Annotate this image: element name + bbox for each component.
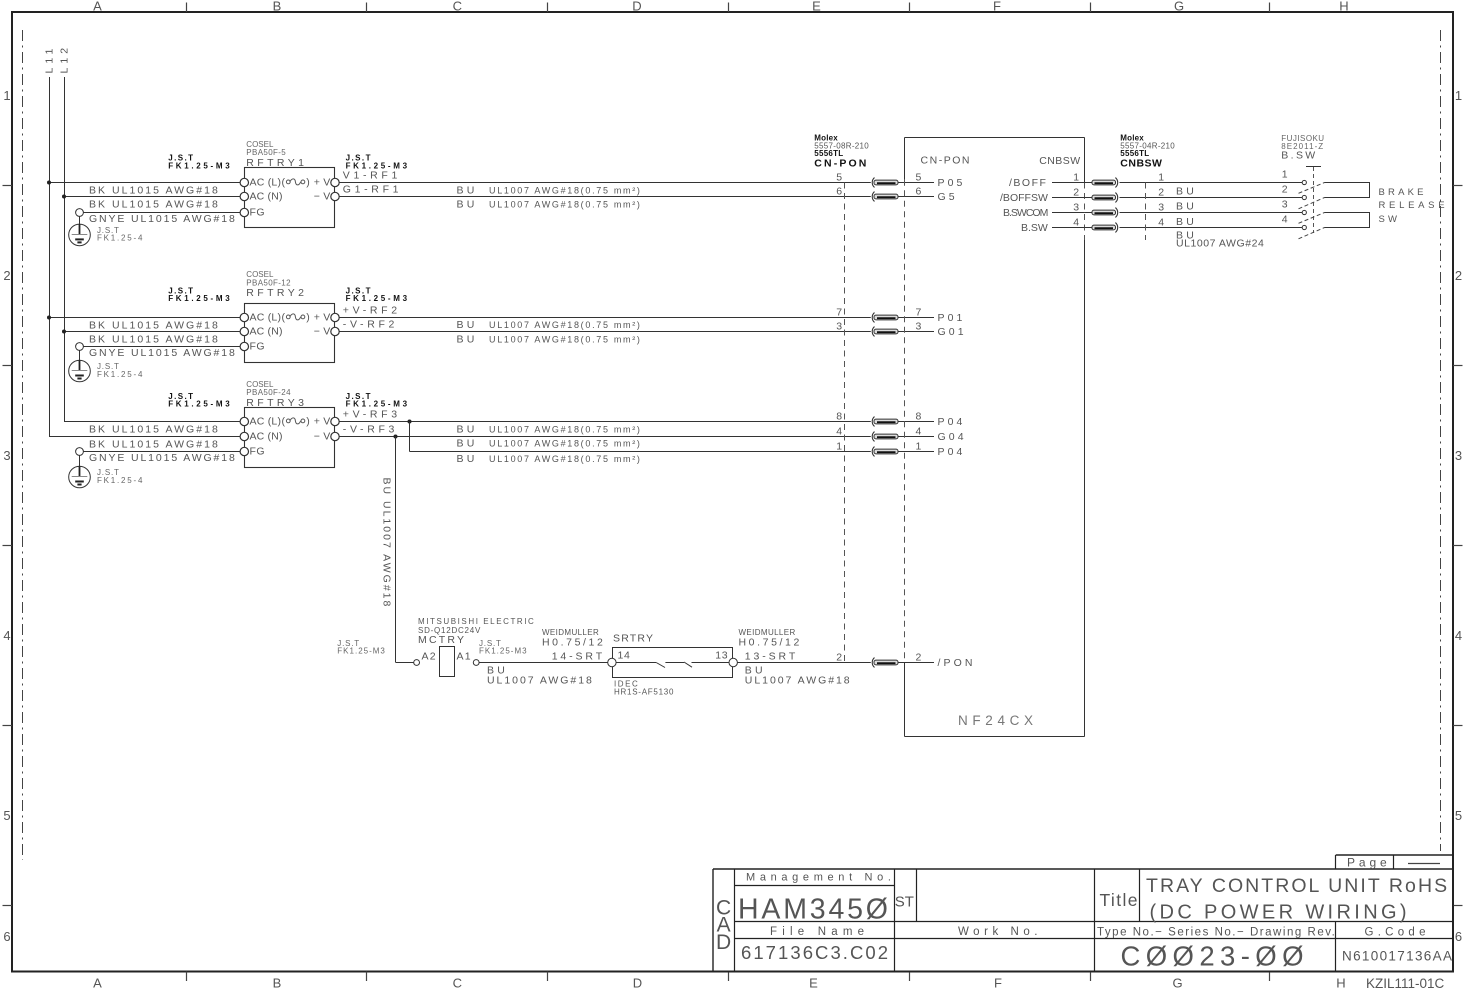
splice crimp CN-PON pin 1 (872, 447, 898, 457)
svg-text:NF24CX: NF24CX (958, 713, 1038, 728)
switch contact terminal pin 2 (1302, 195, 1306, 199)
svg-text:4: 4 (3, 628, 10, 643)
junction +V-RF3 branch (408, 420, 412, 424)
terminal A2 lug (414, 660, 420, 666)
svg-text:1: 1 (3, 88, 10, 103)
svg-text:H: H (1336, 976, 1345, 991)
svg-text:FK1.25-M3: FK1.25-M3 (346, 294, 410, 303)
pin AC(L) RFTRY2 (240, 313, 248, 321)
svg-text:7: 7 (916, 307, 922, 319)
svg-text:1: 1 (916, 441, 922, 453)
junction -V-RF3 branch (394, 435, 398, 439)
wire stub inside NF24CX pin 6 (905, 196, 935, 198)
connector CN-PON dashed boundary (844, 183, 846, 663)
svg-text:B.SW: B.SW (1281, 150, 1317, 162)
switch pole 2 blade upper (dashed) (1299, 213, 1325, 224)
svg-text:+V: +V (314, 312, 334, 324)
svg-text:5: 5 (916, 172, 922, 184)
svg-text:1: 1 (1455, 88, 1462, 103)
svg-text:+V: +V (314, 416, 334, 428)
wire to CN-PON pin 2 (737, 662, 870, 664)
svg-text:3: 3 (1282, 198, 1288, 210)
svg-text:G: G (1174, 0, 1184, 14)
terminal FG lug RFTRY3 (76, 448, 84, 456)
svg-text:HAM345Ø: HAM345Ø (738, 894, 891, 926)
wire stub inside NF24CX pin 1 (905, 451, 935, 453)
junction L11/RFTRY1 (47, 181, 51, 185)
svg-text:G: G (1172, 976, 1182, 991)
pin +V RFTRY3 (331, 417, 339, 425)
splice crimp CN-PON pin 3 (872, 327, 898, 337)
splice crimp CNBSW pin 4 (1092, 223, 1118, 233)
svg-text:E: E (809, 976, 818, 991)
svg-text:AC (L): AC (L) (250, 311, 282, 323)
svg-text:G1-RF1: G1-RF1 (343, 184, 402, 196)
svg-text:/PON: /PON (938, 657, 976, 669)
wire FG RFTRY3 (83, 451, 240, 453)
splice crimp CNBSW pin 3 (1092, 208, 1118, 218)
svg-text:13-SRT: 13-SRT (745, 650, 798, 662)
svg-text:6: 6 (1455, 929, 1462, 944)
svg-text:MCTRY: MCTRY (418, 634, 466, 646)
svg-text:14: 14 (618, 650, 631, 662)
svg-text:4: 4 (1455, 628, 1462, 643)
svg-text:1: 1 (1158, 172, 1164, 184)
junction L12/RFTRY2 (62, 330, 66, 334)
svg-text:4: 4 (1282, 213, 1288, 225)
terminal A1 lug (473, 660, 479, 666)
wire -V-RF3 to MCTRY A2 (396, 662, 414, 664)
svg-text:BU: BU (457, 423, 478, 435)
svg-text:BK UL1015 AWG#18: BK UL1015 AWG#18 (89, 424, 220, 436)
svg-text:CN-PON: CN-PON (921, 155, 972, 167)
AC waveform symbol RFTRY2 (282, 311, 310, 323)
wire stub inside NF24CX pin 3 (905, 331, 935, 333)
svg-text:2: 2 (3, 268, 10, 283)
svg-text:B.SWCOM: B.SWCOM (1003, 207, 1048, 219)
wire -V-RF3 down to MCTRY (395, 437, 397, 663)
svg-text:UL1007 AWG#18(0.75 mm²): UL1007 AWG#18(0.75 mm²) (489, 439, 642, 449)
svg-text:BK UL1015 AWG#18: BK UL1015 AWG#18 (89, 199, 220, 211)
svg-text:BU: BU (457, 319, 478, 331)
splice crimp CN-PON pin 5 (872, 178, 898, 188)
switch B.SW linkage dashed (1313, 167, 1315, 233)
svg-text:G5: G5 (938, 191, 958, 203)
wire MCTRY A1 to SRTRY 14 (479, 662, 608, 664)
svg-text:4: 4 (916, 426, 922, 438)
svg-text:BU: BU (457, 184, 478, 196)
svg-text:/BOFFSW: /BOFFSW (1000, 192, 1048, 204)
wire stub /BOFFSW to CNBSW pin 2 (1052, 197, 1085, 199)
svg-text:FK1.25-M3: FK1.25-M3 (168, 162, 232, 171)
splice crimp CN-PON pin 8 (872, 417, 898, 427)
svg-text:G04: G04 (938, 431, 967, 443)
wire to CN-PON pin 1 (410, 451, 871, 453)
wire CNBSW pin 4 to B.SW switch (1085, 227, 1092, 229)
svg-text:BK UL1015 AWG#18: BK UL1015 AWG#18 (89, 334, 220, 346)
terminal FG lug RFTRY2 (76, 343, 84, 351)
svg-text:G01: G01 (938, 326, 967, 338)
svg-text:4: 4 (1158, 217, 1164, 229)
svg-text:UL1007 AWG#18(0.75 mm²): UL1007 AWG#18(0.75 mm²) (489, 200, 642, 210)
svg-text:V1-RF1: V1-RF1 (343, 170, 401, 182)
splice crimp CNBSW pin 2 (1092, 193, 1118, 203)
pin -V RFTRY2 (331, 327, 339, 335)
svg-text:B: B (273, 0, 282, 14)
svg-text:UL1007 AWG#18(0.75 mm²): UL1007 AWG#18(0.75 mm²) (489, 320, 642, 330)
wire L11 vertical (50, 77, 241, 437)
wire CNBSW pin 3 to B.SW switch (1085, 212, 1092, 214)
svg-text:BU UL1007 AWG#18: BU UL1007 AWG#18 (381, 478, 393, 609)
splice crimp CNBSW pin 1 (1092, 178, 1118, 188)
terminal SRTRY 14 lug (608, 658, 616, 666)
switch B.SW actuator bar (1306, 166, 1321, 168)
svg-text:FG: FG (250, 446, 265, 458)
svg-text:AC (L): AC (L) (250, 176, 282, 188)
svg-text:BU: BU (1176, 216, 1197, 228)
pin -V RFTRY3 (331, 432, 339, 440)
svg-text:AC (N): AC (N) (250, 191, 283, 203)
svg-text:RFTRY2: RFTRY2 (246, 287, 307, 299)
svg-text:H0.75/12: H0.75/12 (739, 637, 802, 649)
svg-text:A1: A1 (457, 650, 472, 662)
svg-text:3: 3 (3, 448, 10, 463)
wire L12 vertical (65, 77, 241, 422)
svg-text:CNBSW: CNBSW (1120, 157, 1162, 169)
wire +V-RF3 branch down (409, 422, 411, 452)
svg-text:+V: +V (314, 177, 334, 189)
svg-text:GNYE UL1015 AWG#18: GNYE UL1015 AWG#18 (89, 347, 237, 359)
wire FG RFTRY2 (83, 346, 240, 348)
svg-text:KZIL111-01C: KZIL111-01C (1366, 976, 1445, 991)
svg-text:F: F (993, 0, 1001, 14)
switch pole 2 common bracket (1325, 213, 1370, 228)
unit NF24CX box outline (905, 138, 1085, 737)
junction L11/RFTRY2 (47, 316, 51, 320)
pin AC(L) RFTRY1 (240, 178, 248, 186)
wire stub inside NF24CX pin 5 (905, 182, 935, 184)
ground symbol RFTRY1 (69, 216, 91, 245)
svg-text:2: 2 (1158, 187, 1164, 199)
terminal FG lug RFTRY1 (76, 209, 84, 217)
switch pole 1 common bracket (1325, 183, 1370, 198)
svg-text:BU: BU (1176, 201, 1197, 213)
wire to CN-PON pin 5 (339, 182, 871, 184)
wire stub inside NF24CX pin 2 (905, 662, 935, 664)
splice crimp CN-PON pin 2 (872, 658, 898, 668)
svg-text:RELEASE: RELEASE (1379, 200, 1449, 211)
svg-text:Title: Title (1100, 890, 1139, 910)
svg-text:FK1.25-M3: FK1.25-M3 (168, 294, 232, 303)
svg-text:P04: P04 (938, 416, 966, 428)
svg-text:BU: BU (1176, 186, 1197, 198)
svg-text:UL1007 AWG#18: UL1007 AWG#18 (745, 674, 852, 686)
power supply RFTRY2 box (245, 304, 335, 363)
label BRAKE RELEASE SW (1379, 187, 1449, 225)
svg-text:BU: BU (457, 438, 478, 450)
wire to CN-PON pin 6 (339, 196, 871, 198)
svg-text:617136C3.C02: 617136C3.C02 (741, 942, 890, 963)
pin FG RFTRY2 (240, 342, 248, 350)
pin -V RFTRY1 (331, 192, 339, 200)
svg-text:+V-RF2: +V-RF2 (343, 305, 401, 317)
wire FG RFTRY1 (83, 212, 240, 214)
svg-text:N610017136AA: N610017136AA (1342, 948, 1453, 963)
connector CN-PON Molex part labels (814, 133, 869, 169)
pin AC(N) RFTRY1 (240, 192, 248, 200)
terminal SRTRY 13 lug (729, 658, 737, 666)
switch pole 1 blade lower (dashed) (1299, 198, 1325, 209)
svg-text:BK UL1015 AWG#18: BK UL1015 AWG#18 (89, 185, 220, 197)
splice crimp CN-PON pin 6 (872, 192, 898, 202)
svg-text:-V-RF3: -V-RF3 (343, 424, 398, 436)
svg-text:2: 2 (1282, 183, 1288, 195)
svg-text:C: C (453, 0, 462, 14)
svg-text:3: 3 (1073, 201, 1079, 213)
wire stub inside NF24CX pin 7 (905, 317, 935, 319)
wire CNBSW pin 1 to B.SW switch (1085, 182, 1092, 184)
switch contact terminal pin 4 (1302, 225, 1306, 229)
svg-text:1: 1 (836, 441, 842, 453)
svg-text:14-SRT: 14-SRT (552, 650, 605, 662)
svg-text:H: H (1339, 0, 1348, 14)
svg-text:Management No.: Management No. (746, 872, 896, 884)
svg-text:B.SW: B.SW (1021, 222, 1048, 234)
svg-text:FK1.25-4: FK1.25-4 (97, 476, 144, 485)
power supply RFTRY3 box (245, 408, 335, 468)
svg-text:AC (N): AC (N) (250, 326, 283, 338)
svg-text:3: 3 (1158, 202, 1164, 214)
svg-text:(: ( (282, 176, 286, 188)
wire to CN-PON pin 7 (339, 317, 871, 319)
svg-text:A2: A2 (422, 650, 437, 662)
switch pole 2 blade lower (dashed) (1299, 228, 1325, 239)
svg-text:1: 1 (1282, 168, 1288, 180)
svg-text:FK1.25-4: FK1.25-4 (97, 234, 144, 243)
svg-text:P01: P01 (938, 312, 966, 324)
svg-text:P05: P05 (938, 177, 966, 189)
svg-text:13: 13 (715, 650, 728, 662)
wire CNBSW pin 2 to B.SW switch (1085, 197, 1092, 199)
timer contact SRTRY box (613, 648, 733, 678)
svg-text:): ) (306, 311, 310, 323)
relay MCTRY coil (440, 647, 455, 677)
switch pole 1 blade upper (dashed) (1299, 183, 1325, 194)
wire stub /BOFF to CNBSW pin 1 (1052, 182, 1085, 184)
wire to CN-PON pin 4 (339, 436, 871, 438)
svg-text:(: ( (282, 311, 286, 323)
svg-text:H0.75/12: H0.75/12 (542, 637, 605, 649)
wire L12 to RFTRY2 AC(N) (64, 331, 240, 333)
switch contact terminal pin 3 (1302, 210, 1306, 214)
svg-text:UL1007 AWG#18(0.75 mm²): UL1007 AWG#18(0.75 mm²) (489, 335, 642, 345)
svg-text:F: F (994, 976, 1002, 991)
svg-text:BU: BU (457, 453, 478, 465)
ground symbol RFTRY2 (69, 350, 91, 381)
wire to CN-PON pin 8 (339, 421, 871, 423)
svg-text:HR1S-AF5130: HR1S-AF5130 (614, 688, 674, 697)
svg-text:1: 1 (1073, 171, 1079, 183)
svg-text:FG: FG (250, 207, 265, 219)
svg-text:D: D (633, 976, 642, 991)
svg-text:GNYE UL1015 AWG#18: GNYE UL1015 AWG#18 (89, 452, 237, 464)
pin AC(N) RFTRY2 (240, 327, 248, 335)
label WEIDMULLER H0.75/12 13-SRT (739, 628, 802, 662)
svg-text:B: B (273, 976, 282, 991)
svg-text:2: 2 (836, 652, 842, 664)
pin FG RFTRY3 (240, 447, 248, 455)
wire to CN-PON pin 3 (339, 331, 871, 333)
svg-text:UL1007 AWG#18(0.75 mm²): UL1007 AWG#18(0.75 mm²) (489, 424, 642, 434)
svg-text:E: E (812, 0, 821, 14)
switch contact terminal pin 1 (1302, 180, 1306, 184)
svg-text:BK UL1015 AWG#18: BK UL1015 AWG#18 (89, 439, 220, 451)
svg-text:D: D (716, 931, 731, 954)
svg-text:(: ( (282, 415, 286, 427)
svg-text:5: 5 (3, 808, 10, 823)
power supply RFTRY1 box (245, 168, 335, 228)
svg-text:ST: ST (895, 894, 914, 911)
svg-text:2: 2 (916, 652, 922, 664)
svg-text:−V: −V (314, 431, 334, 443)
pin +V RFTRY2 (331, 313, 339, 321)
pin +V RFTRY1 (331, 178, 339, 186)
svg-text:(DC POWER WIRING): (DC POWER WIRING) (1150, 901, 1410, 923)
switch B.SW part labels FUJISOKU 8E2011-Z (1281, 134, 1324, 162)
AC waveform symbol RFTRY1 (282, 176, 310, 188)
svg-text:−V: −V (314, 326, 334, 338)
svg-text:−V: −V (314, 191, 334, 203)
svg-text:4: 4 (836, 426, 842, 438)
svg-text:): ) (306, 176, 310, 188)
AC waveform symbol RFTRY3 (282, 415, 310, 427)
svg-text:4: 4 (1073, 216, 1079, 228)
label WEIDMULLER H0.75/12 14-SRT (542, 628, 605, 662)
svg-text:UL1007 AWG#18: UL1007 AWG#18 (487, 674, 594, 686)
svg-text:/BOFF: /BOFF (1009, 177, 1047, 189)
svg-text:8: 8 (836, 411, 842, 423)
timer contact SRTRY blades (616, 662, 729, 668)
svg-text:FG: FG (250, 341, 265, 353)
svg-text:BK UL1015 AWG#18: BK UL1015 AWG#18 (89, 320, 220, 332)
svg-text:A: A (93, 976, 102, 991)
wire stub inside NF24CX pin 8 (905, 421, 935, 423)
svg-text:Page: Page (1347, 855, 1391, 869)
svg-text:FK1.25-M3: FK1.25-M3 (346, 399, 410, 408)
svg-text:FK1.25-4: FK1.25-4 (97, 370, 144, 379)
svg-text:2: 2 (1073, 186, 1079, 198)
label CAD (716, 897, 731, 955)
svg-text:Type No.− Series No.− Drawing: Type No.− Series No.− Drawing Rev. (1097, 927, 1336, 939)
svg-text:5: 5 (836, 172, 842, 184)
junction L12/RFTRY1 (62, 195, 66, 199)
connector CNBSW Molex part labels (1120, 133, 1175, 169)
svg-text:UL1007 AWG#18(0.75 mm²): UL1007 AWG#18(0.75 mm²) (489, 454, 642, 464)
svg-text:CØØ23-ØØ: CØØ23-ØØ (1121, 941, 1309, 972)
svg-text:6: 6 (3, 929, 10, 944)
svg-text:UL1007 AWG#18(0.75 mm²): UL1007 AWG#18(0.75 mm²) (489, 185, 642, 195)
svg-text:6: 6 (836, 186, 842, 198)
svg-text:File Name: File Name (770, 926, 869, 938)
svg-text:BU: BU (457, 199, 478, 211)
svg-text:AC (N): AC (N) (250, 431, 283, 443)
svg-text:3: 3 (1455, 448, 1462, 463)
pin AC(N) RFTRY3 (240, 432, 248, 440)
svg-text:BRAKE: BRAKE (1379, 187, 1427, 198)
wire L11 to RFTRY2 AC(L) (49, 317, 240, 319)
svg-text:UL1007 AWG#24: UL1007 AWG#24 (1176, 238, 1264, 250)
pin FG RFTRY1 (240, 208, 248, 216)
relay MCTRY part labels MITSUBISHI ELECTRIC SD-Q12DC24V (418, 617, 535, 646)
svg-text:L11: L11 (44, 45, 56, 74)
svg-text:Work No.: Work No. (958, 926, 1042, 938)
svg-text:FK1.25-M3: FK1.25-M3 (337, 646, 386, 655)
title block (713, 855, 1453, 972)
svg-text:-V-RF2: -V-RF2 (343, 319, 398, 331)
svg-text:8: 8 (916, 411, 922, 423)
svg-text:A: A (93, 0, 102, 14)
page number dash (1408, 863, 1440, 865)
svg-text:2: 2 (1455, 268, 1462, 283)
splice crimp CN-PON pin 7 (872, 313, 898, 323)
svg-text:TRAY CONTROL UNIT RoHS: TRAY CONTROL UNIT RoHS (1146, 875, 1449, 897)
svg-text:3: 3 (836, 321, 842, 333)
svg-text:5: 5 (1455, 808, 1462, 823)
svg-text:6: 6 (916, 186, 922, 198)
splice crimp CN-PON pin 4 (872, 432, 898, 442)
svg-text:C: C (453, 976, 462, 991)
ground symbol RFTRY3 (69, 455, 91, 487)
svg-text:L12: L12 (59, 44, 71, 74)
wire L11 to RFTRY1 AC(L) (49, 182, 240, 184)
svg-text:+V-RF3: +V-RF3 (343, 409, 401, 421)
svg-text:SRTRY: SRTRY (613, 633, 654, 645)
wire L12 to RFTRY1 AC(N) (64, 196, 240, 198)
svg-text:CNBSW: CNBSW (1039, 155, 1080, 167)
svg-text:G.Code: G.Code (1365, 927, 1430, 939)
wire stub inside NF24CX pin 4 (905, 436, 935, 438)
svg-text:3: 3 (916, 321, 922, 333)
svg-text:FK1.25-M3: FK1.25-M3 (479, 646, 528, 655)
svg-text:FK1.25-M3: FK1.25-M3 (168, 399, 232, 408)
svg-text:CN-PON: CN-PON (814, 157, 868, 169)
svg-text:GNYE UL1015 AWG#18: GNYE UL1015 AWG#18 (89, 213, 237, 225)
svg-text:BU: BU (457, 334, 478, 346)
svg-text:D: D (632, 0, 641, 14)
connector CNBSW dashed boundary (1145, 183, 1147, 241)
wire stub B.SW to CNBSW pin 4 (1052, 227, 1085, 229)
svg-text:SW: SW (1379, 214, 1401, 225)
wire stub B.SWCOM to CNBSW pin 3 (1052, 212, 1085, 214)
svg-text:7: 7 (836, 307, 842, 319)
svg-text:MITSUBISHI ELECTRIC: MITSUBISHI ELECTRIC (418, 617, 535, 626)
svg-text:): ) (306, 415, 310, 427)
svg-text:P04: P04 (938, 446, 966, 458)
svg-text:AC (L): AC (L) (250, 415, 282, 427)
pin AC(L) RFTRY3 (240, 417, 248, 425)
